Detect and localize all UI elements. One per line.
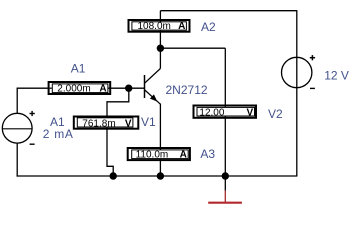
svg-text:A3: A3 (200, 147, 215, 161)
ammeter A1 unit (99, 84, 106, 95)
wire left column upper (16, 88, 18, 113)
transistor Q1 base bar (144, 75, 146, 98)
ammeter A2 unit (178, 21, 185, 32)
voltage source minus sign (310, 87, 315, 89)
voltage source V2 circle (282, 57, 312, 87)
ammeter A3 unit (180, 149, 187, 160)
wire V2 branch vertical (224, 48, 226, 176)
ammeter A2 box (129, 20, 190, 32)
ammeter A3 reading (136, 149, 169, 160)
voltmeter V1 reading (82, 118, 115, 129)
ground bar (208, 202, 242, 204)
wire left column lower (16, 143, 18, 177)
voltmeter V2 box (194, 106, 257, 118)
node ground junction (222, 172, 229, 179)
ammeter A2 reading (138, 21, 171, 32)
transistor Q1 collector diagonal (145, 69, 161, 84)
current source A1 value label (43, 127, 74, 141)
wire collector node to V2 branch (160, 47, 225, 49)
voltmeter V1 label (141, 115, 156, 129)
ground lead black (224, 176, 226, 191)
svg-text:2N2712: 2N2712 (166, 83, 208, 97)
voltmeter V2 label (268, 107, 283, 121)
wire base row right (111, 87, 145, 89)
ammeter A1 box (49, 82, 111, 94)
ammeter A3 label (200, 147, 215, 161)
current source A1 plus sign (30, 111, 35, 116)
svg-text:108.0m: 108.0m (138, 21, 171, 32)
current source A1 minus sign (30, 143, 35, 145)
svg-text:A2: A2 (201, 20, 216, 34)
node base junction (125, 85, 132, 92)
wire base row left (17, 87, 49, 89)
svg-text:2.000m: 2.000m (57, 84, 90, 95)
voltmeter V2 reading (199, 107, 224, 118)
svg-text:761.8m: 761.8m (82, 118, 115, 129)
svg-text:110.0m: 110.0m (136, 149, 169, 160)
wire voltmeter V1 branch bottom (107, 122, 113, 176)
svg-text:A: A (178, 21, 185, 32)
transistor type label 2N2712 (166, 83, 208, 97)
ammeter A1 label (71, 62, 86, 76)
svg-text:V2: V2 (268, 107, 283, 121)
svg-text:2 mA: 2 mA (43, 127, 74, 141)
transistor Q1 emitter diagonal (145, 90, 161, 104)
ground lead red (224, 191, 226, 202)
svg-text:V1: V1 (141, 115, 156, 129)
svg-text:V: V (125, 118, 132, 129)
wire collector vertical (159, 48, 161, 68)
transistor Q1 emitter arrow (151, 95, 157, 100)
voltmeter V2 unit (247, 107, 254, 118)
voltmeter V1 box (74, 117, 139, 129)
ammeter A3 box (128, 148, 190, 160)
voltage source plus sign (310, 55, 315, 60)
wire voltmeter V1 branch top (107, 88, 129, 122)
wire top rail (160, 10, 296, 12)
voltage source value label 12 V (324, 69, 349, 83)
voltmeter V1 unit (125, 118, 132, 129)
node collector junction (157, 45, 164, 52)
svg-text:A1: A1 (71, 62, 86, 76)
svg-text:A: A (99, 84, 106, 95)
wire emitter vertical (159, 104, 161, 177)
svg-text:12 V: 12 V (324, 69, 349, 83)
svg-text:A: A (180, 149, 187, 160)
current source A1 circle (2, 113, 32, 143)
svg-text:12.00: 12.00 (199, 107, 224, 118)
wire ammeter A2 column (159, 11, 161, 49)
current source A1 name label (50, 115, 65, 129)
wire right rail (296, 10, 298, 176)
wire bottom rail (17, 175, 298, 177)
node emitter bottom junction (157, 172, 164, 179)
node V1 bottom junction (110, 172, 117, 179)
svg-text:V: V (247, 107, 254, 118)
ammeter A2 label (201, 20, 216, 34)
ammeter A1 reading (57, 84, 90, 95)
